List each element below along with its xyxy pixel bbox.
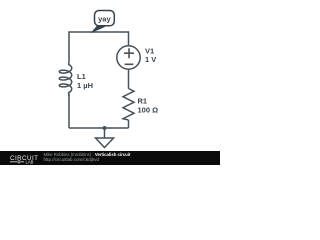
svg-text:100 Ω: 100 Ω (138, 106, 159, 115)
resistor R1 (123, 89, 134, 121)
footer logo LAB wire (10, 161, 24, 163)
wire V1 to R1 (128, 69, 130, 88)
wire R1 to bottom rail (128, 120, 130, 128)
svg-text:R1: R1 (138, 97, 148, 106)
svg-text:LAB: LAB (26, 160, 34, 165)
ground (104, 128, 106, 138)
annotation bubble (95, 11, 115, 26)
footer bar (0, 151, 220, 165)
wire left lower (68, 94, 70, 128)
svg-text:CIRCUIT: CIRCUIT (10, 155, 38, 162)
wire bottom rail (69, 127, 129, 129)
node junction dot (103, 126, 107, 130)
annotation bubble tail (91, 25, 106, 33)
wire top rail (69, 32, 129, 62)
svg-text:http://circuitlab.com/c6dj5vd: http://circuitlab.com/c6dj5vd (44, 157, 100, 162)
svg-text:1 V: 1 V (145, 55, 156, 64)
inductor L1 (59, 62, 71, 96)
svg-text:yay: yay (98, 14, 111, 23)
svg-text:1 µH: 1 µH (77, 81, 93, 90)
voltage source V1 (117, 46, 140, 69)
svg-text:L1: L1 (77, 72, 86, 81)
